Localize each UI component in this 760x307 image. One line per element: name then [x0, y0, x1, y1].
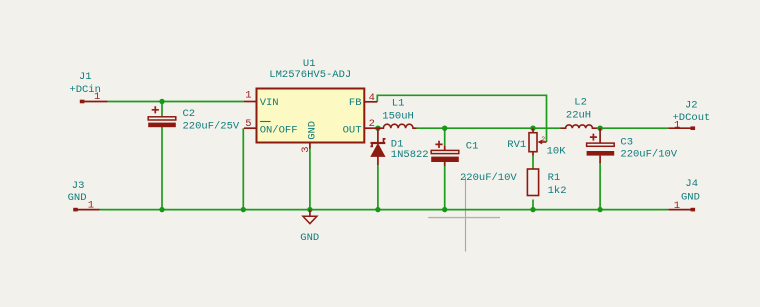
wire D1 bottom [377, 165, 379, 210]
wire top rail J1 to VIN [108, 101, 244, 103]
wire C2 bottom [161, 127, 163, 210]
junction bus GND [307, 207, 312, 212]
capacitor C3 [587, 128, 615, 163]
connector J1 pin [80, 100, 108, 104]
cursor crosshair horizontal [428, 217, 500, 219]
junction bus D1 [375, 207, 380, 212]
svg-text:GND: GND [681, 192, 700, 204]
svg-text:C3: C3 [620, 137, 633, 149]
svg-text:J3: J3 [72, 180, 85, 192]
wire OUT rail seg1 [417, 127, 561, 129]
svg-text:1k2: 1k2 [548, 185, 567, 197]
svg-text:2: 2 [541, 136, 545, 143]
wire C3 bottom [599, 162, 601, 210]
svg-text:LM2576HV5-ADJ: LM2576HV5-ADJ [269, 69, 351, 81]
op-amp U1 body [257, 89, 365, 143]
wire C1 bottom [444, 166, 446, 210]
svg-text:L1: L1 [392, 98, 405, 110]
svg-text:150uH: 150uH [382, 110, 414, 122]
wire R1 bottom [532, 200, 534, 210]
svg-text:VIN: VIN [260, 97, 279, 109]
inductor L1 [378, 124, 417, 128]
svg-text:220uF/25V: 220uF/25V [183, 121, 240, 133]
wire C2 top [161, 102, 163, 118]
svg-text:J1: J1 [79, 71, 92, 83]
wire GND bus [100, 209, 669, 211]
svg-text:3: 3 [300, 146, 312, 152]
connector J4 pin [668, 208, 695, 212]
wire C1 top [444, 128, 446, 146]
capacitor C2 [148, 106, 176, 127]
resistor R1 [527, 169, 538, 196]
svg-text:10K: 10K [547, 145, 567, 157]
junction bus C2 [159, 207, 164, 212]
pin OUT stub [364, 127, 378, 129]
wire ON/OFF down [242, 128, 244, 209]
svg-text:22uH: 22uH [566, 110, 591, 122]
junction OUT C1 [442, 126, 447, 131]
svg-text:220uF/10V: 220uF/10V [620, 149, 677, 161]
wire RV1-R1 [532, 156, 534, 170]
svg-text:GND: GND [300, 232, 319, 244]
junction OUT D1 [375, 126, 380, 131]
svg-text:1N5822: 1N5822 [391, 149, 429, 161]
svg-text:OUT: OUT [343, 125, 362, 137]
junction OUT RV1 [530, 126, 535, 131]
svg-text:1: 1 [674, 119, 680, 131]
svg-text:ON/OFF: ON/OFF [260, 125, 298, 137]
inductor L2 [561, 125, 597, 128]
svg-text:4: 4 [369, 92, 375, 104]
svg-text:J4: J4 [685, 178, 698, 190]
junction bus ONOFF [241, 207, 246, 212]
svg-text:GND: GND [68, 192, 87, 204]
svg-text:L2: L2 [574, 96, 587, 108]
svg-text:C1: C1 [466, 141, 479, 153]
junction bus R1 [530, 207, 535, 212]
junction bus C3 [597, 207, 602, 212]
pin ON/OFF stub [244, 127, 257, 129]
svg-text:1: 1 [88, 199, 94, 211]
svg-text:1: 1 [674, 200, 680, 212]
wire OUT rail seg2 [597, 127, 668, 129]
pin FB stub [364, 101, 377, 103]
potentiometer RV1 [529, 128, 547, 155]
junction bus C1 [442, 207, 447, 212]
capacitor C1 [431, 141, 459, 166]
pin GND stub [309, 143, 311, 149]
svg-text:FB: FB [349, 97, 362, 109]
svg-text:GND: GND [307, 121, 319, 140]
ground symbol [303, 210, 317, 224]
diode D1 [370, 128, 385, 165]
svg-text:1: 1 [94, 91, 100, 103]
svg-text:C2: C2 [183, 108, 196, 120]
cursor crosshair vertical [465, 177, 467, 252]
svg-text:R1: R1 [548, 172, 561, 184]
svg-text:J2: J2 [685, 99, 698, 111]
svg-text:1: 1 [245, 90, 251, 102]
junction top C2 [159, 99, 164, 104]
pin VIN stub [244, 101, 257, 103]
junction OUT L2 C3 [597, 126, 602, 131]
svg-text:2: 2 [369, 118, 375, 130]
wire FB loop [377, 95, 546, 142]
svg-text:220uF/10V: 220uF/10V [460, 172, 517, 184]
svg-text:RV1: RV1 [507, 139, 526, 151]
wire GND pin3 down [309, 148, 311, 210]
connector J3 pin [73, 208, 100, 212]
svg-text:5: 5 [245, 118, 251, 130]
connector J2 pin [668, 126, 695, 130]
pin name ON/OFF [260, 122, 298, 137]
